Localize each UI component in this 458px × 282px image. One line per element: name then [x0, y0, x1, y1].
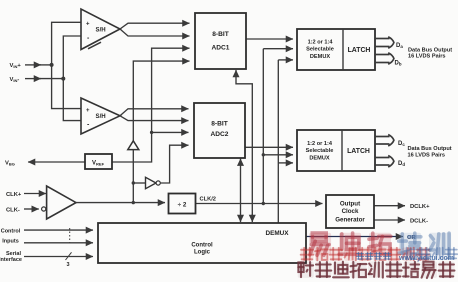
svg-text:Da: Da	[396, 43, 403, 49]
watermark middle red text	[301, 248, 430, 262]
wire CLK/2 vertical to demux in2	[262, 49, 264, 204]
svg-text:Inputs: Inputs	[2, 239, 19, 245]
wire DCLK- output	[374, 219, 405, 221]
wire DEMUX1 input2	[263, 48, 293, 50]
svg-text:CLK/2: CLK/2	[200, 197, 216, 203]
inverter	[146, 177, 157, 188]
svg-text:Db: Db	[395, 60, 402, 66]
wire VIN+ vertical bus	[52, 22, 81, 108]
block output clock generator	[326, 195, 374, 228]
svg-text:VBG: VBG	[5, 160, 15, 166]
op-amp clock buffer	[47, 186, 76, 219]
node clock tap junction	[132, 201, 135, 204]
svg-text:CLK-: CLK-	[6, 207, 20, 213]
wire VBG output	[28, 161, 85, 163]
wire sampling clock vertical lower	[132, 150, 134, 203]
svg-text:DEMUX: DEMUX	[265, 230, 289, 237]
wire VIN- vertical bus	[63, 36, 81, 121]
svg-text:DEMUX: DEMUX	[310, 54, 330, 60]
svg-text:16 LVDS Pairs: 16 LVDS Pairs	[408, 53, 446, 59]
bus arrow Da	[375, 37, 394, 49]
resistorless block ADC1	[195, 13, 246, 69]
svg-text:Logic: Logic	[194, 249, 211, 255]
wire inverter output to ADC2	[160, 145, 188, 183]
node DEMUX2 in2 junction	[262, 153, 265, 156]
node VIN- input line	[25, 78, 41, 80]
svg-text:Data Bus Output: Data Bus Output	[408, 47, 452, 53]
svg-text:Dc: Dc	[398, 141, 405, 147]
bus arrow Dd	[375, 156, 394, 168]
wire DEMUX2 input2	[263, 154, 293, 156]
wire clock line to divider	[76, 202, 165, 204]
wire OR output	[306, 236, 403, 238]
svg-text:+: +	[86, 22, 90, 28]
wire control input 2	[24, 242, 93, 244]
wire control input 1	[24, 229, 93, 231]
block ADC2	[194, 103, 245, 158]
wire bus-width slash	[66, 252, 72, 260]
node VREF to ADC2 junction	[150, 131, 153, 134]
block DEMUX2 with LATCH	[297, 130, 375, 171]
wire CLK+ input	[24, 193, 46, 195]
svg-text:Data Bus Output: Data Bus Output	[408, 146, 452, 152]
wire control ellipsis dashes	[69, 228, 71, 244]
node VIN+ junction	[50, 63, 54, 67]
wire ADC1 output to DEMUX1	[246, 38, 293, 40]
svg-text:Generator: Generator	[335, 217, 365, 224]
svg-text:VIN-: VIN-	[10, 77, 20, 83]
svg-text:Selectable: Selectable	[306, 47, 334, 53]
svg-text:Selectable: Selectable	[306, 148, 334, 154]
block divide-by-2	[169, 194, 196, 214]
wire ADC2 clock from control logic	[240, 159, 242, 163]
watermark big blue text	[399, 233, 451, 256]
svg-text:DEMUX: DEMUX	[309, 156, 329, 162]
svg-text:Control: Control	[1, 229, 21, 235]
svg-text:S/H: S/H	[96, 26, 106, 33]
wire ADC2 output to DEMUX2	[245, 146, 293, 148]
wire DCLK+ output	[374, 205, 405, 207]
bus arrow Db	[375, 53, 394, 65]
wire DEMUX1 input3	[278, 59, 293, 61]
wire S/H1 output pair to ADC1	[120, 23, 190, 29]
svg-text:www.yiditui.com: www.yiditui.com	[398, 255, 454, 262]
wire inverter input	[133, 182, 145, 184]
wire demux select vertical	[277, 60, 279, 223]
watermark bottom maroon text	[298, 262, 455, 278]
wire CLK- input	[24, 208, 39, 210]
wire ADC1 clock from control logic	[236, 74, 252, 219]
svg-text:Interface: Interface	[0, 257, 22, 263]
svg-text:8-BIT: 8-BIT	[212, 31, 228, 38]
svg-text:8-BIT: 8-BIT	[211, 121, 227, 128]
wire CLK/2 line to output clock generator	[196, 203, 323, 205]
svg-text:DCLK+: DCLK+	[410, 204, 430, 210]
bus arrow Dc	[375, 135, 394, 147]
node CLK/2 branch junction	[262, 202, 265, 205]
svg-text:LATCH: LATCH	[348, 47, 371, 54]
svg-text:VIN+: VIN+	[10, 63, 22, 69]
wire DEMUX2 input3	[278, 162, 293, 164]
svg-text:Dd: Dd	[398, 161, 405, 167]
node CLK- bubble	[42, 207, 46, 211]
svg-text:ADC1: ADC1	[212, 45, 230, 52]
watermark big red text	[309, 233, 391, 256]
svg-text:3: 3	[67, 262, 70, 268]
svg-text:LATCH: LATCH	[347, 148, 370, 155]
node inverter tap junction	[132, 181, 135, 184]
block control logic	[98, 223, 306, 263]
svg-text:1:2 or 1:4: 1:2 or 1:4	[308, 40, 334, 46]
node VIN- junction	[61, 77, 65, 81]
wire VREF net vertical	[112, 48, 190, 162]
wire sampling clock vertical upper	[133, 61, 189, 141]
svg-text:Control: Control	[191, 242, 213, 248]
block DEMUX1 with LATCH	[297, 29, 375, 70]
svg-text:16 LVDS Pairs: 16 LVDS Pairs	[408, 153, 446, 159]
wire serial interface input	[24, 256, 93, 258]
wire S/H1 sample tick	[88, 42, 101, 49]
block VREF	[85, 154, 112, 169]
svg-text:Output: Output	[340, 201, 360, 208]
svg-text:S/H: S/H	[96, 113, 106, 120]
svg-text:DCLK-: DCLK-	[410, 219, 428, 225]
buffer clock up-triangle	[128, 141, 139, 150]
watermark small blue text	[405, 248, 458, 260]
svg-text:ADC2: ADC2	[211, 131, 229, 138]
svg-text:VREF: VREF	[92, 160, 105, 166]
op-amp S/H 2	[81, 98, 120, 134]
svg-text:1:2 or 1:4: 1:2 or 1:4	[307, 141, 333, 147]
svg-text:÷ 2: ÷ 2	[178, 201, 187, 208]
op-amp S/H 1	[81, 9, 120, 50]
node VIN+ input line	[25, 64, 41, 66]
svg-text:Clock: Clock	[342, 208, 359, 215]
svg-text:+: +	[86, 108, 90, 114]
svg-text:CLK+: CLK+	[6, 192, 22, 198]
wire S/H2 output pair to ADC2	[120, 109, 189, 116]
wire VREF to ADC2 input	[152, 131, 189, 133]
